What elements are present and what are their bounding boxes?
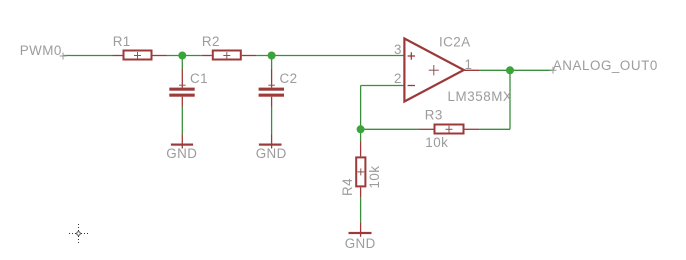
svg-text:LM358MX: LM358MX: [448, 89, 513, 104]
svg-text:R1: R1: [113, 34, 131, 49]
svg-text:10k: 10k: [367, 166, 382, 189]
svg-text:GND: GND: [256, 146, 287, 161]
svg-text:ANALOG_OUT0: ANALOG_OUT0: [553, 58, 658, 73]
svg-text:C1: C1: [190, 71, 208, 86]
svg-text:IC2A: IC2A: [439, 35, 471, 50]
svg-text:R3: R3: [425, 108, 443, 123]
svg-text:C2: C2: [280, 71, 298, 86]
svg-text:R4: R4: [340, 178, 355, 196]
svg-text:3: 3: [394, 42, 402, 57]
svg-text:10k: 10k: [425, 135, 448, 150]
svg-text:GND: GND: [345, 236, 376, 251]
svg-text:2: 2: [394, 71, 402, 86]
svg-text:GND: GND: [166, 146, 197, 161]
svg-text:1: 1: [465, 57, 473, 72]
svg-text:PWM0: PWM0: [20, 43, 62, 58]
svg-text:R2: R2: [202, 34, 220, 49]
